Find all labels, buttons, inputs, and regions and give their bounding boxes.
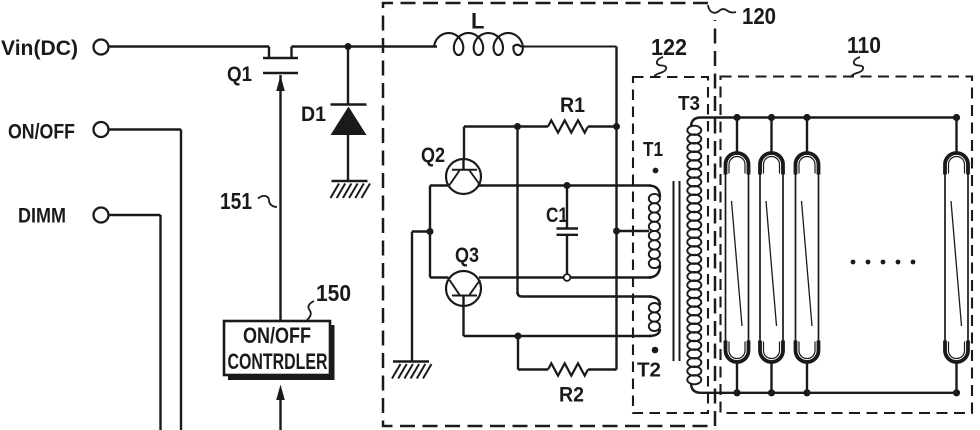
svg-text:ON/OFF: ON/OFF [8,121,75,144]
svg-text:110: 110 [847,32,881,58]
svg-text:R2: R2 [559,384,584,407]
svg-text:Q2: Q2 [421,144,445,167]
svg-text:T1: T1 [643,139,663,161]
svg-text:T3: T3 [678,93,700,115]
svg-text:150: 150 [316,280,351,306]
svg-text:Vin(DC): Vin(DC) [1,37,78,60]
svg-text:CONTRDLER: CONTRDLER [228,349,328,374]
svg-text:151: 151 [220,188,252,214]
svg-text:120: 120 [742,3,776,29]
svg-text:L: L [471,9,484,34]
svg-text:Q1: Q1 [227,63,252,86]
svg-text:ON/OFF: ON/OFF [243,323,311,348]
svg-text:D1: D1 [301,103,326,126]
svg-text:Q3: Q3 [455,244,479,267]
svg-text:R1: R1 [560,94,585,117]
svg-text:T2: T2 [637,360,661,382]
svg-text:122: 122 [651,34,687,60]
svg-text:C1: C1 [546,204,568,227]
svg-text:DIMM: DIMM [18,205,66,228]
